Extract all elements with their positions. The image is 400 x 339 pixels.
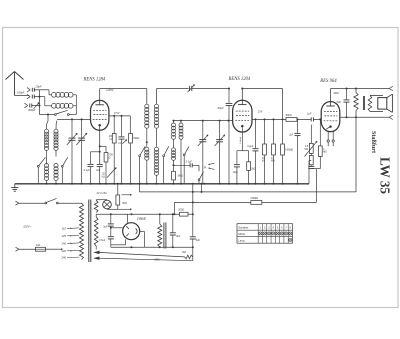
- label 265V: [153, 258, 160, 261]
- resistor 10k: [262, 119, 266, 183]
- svg-text:50Ω: 50Ω: [122, 202, 127, 205]
- svg-text:Schalter: Schalter: [238, 226, 248, 230]
- svg-text:50kΩ: 50kΩ: [286, 113, 292, 117]
- capacitor 100pF: [17, 90, 40, 98]
- bus junction dots: [46, 183, 299, 185]
- resistor 700: [99, 145, 114, 184]
- resistor cathode tube2: [247, 151, 256, 184]
- wire ground return right: [309, 161, 311, 184]
- svg-text:0.05MΩ: 0.05MΩ: [285, 150, 293, 152]
- label +100V: [106, 88, 114, 92]
- ground bus: [15, 183, 309, 185]
- wire rect top: [96, 213, 179, 215]
- label 220V: [22, 225, 31, 229]
- variable capacitor osc gang: [198, 121, 208, 184]
- resistor 0.1M grid: [309, 153, 313, 166]
- svg-text:kΩ: kΩ: [262, 161, 265, 163]
- wire lamp return: [107, 209, 132, 210]
- coil wave trap: [145, 147, 149, 184]
- label tube U1: [83, 78, 106, 83]
- transformer primary: [80, 203, 84, 259]
- resistor 200ohm: [178, 209, 194, 217]
- wire anode rail tube1: [100, 89, 147, 104]
- coil antenna primary: [49, 90, 76, 97]
- svg-text:125: 125: [62, 234, 67, 238]
- svg-text:Lang: Lang: [238, 239, 245, 243]
- svg-text:0.2µF: 0.2µF: [247, 146, 254, 148]
- svg-text:2µF: 2µF: [103, 227, 108, 229]
- svg-text:MΩ: MΩ: [305, 149, 309, 151]
- resistor 5M: [172, 160, 183, 183]
- svg-text:50kΩ: 50kΩ: [133, 137, 139, 140]
- label tap 110: [62, 226, 79, 230]
- capacitor 20pF: [27, 85, 49, 92]
- coil osc 2: [179, 121, 183, 184]
- capacitor AF 2uF: [289, 118, 300, 183]
- resistor 0.1M: [271, 119, 275, 183]
- coil loading 2: [54, 164, 58, 184]
- svg-text:4V 0.15A: 4V 0.15A: [96, 192, 107, 195]
- wire coil returns: [75, 95, 77, 115]
- svg-text:Mittel: Mittel: [238, 232, 245, 236]
- transformer heater leads: [93, 246, 99, 260]
- label tap 125: [62, 234, 80, 238]
- op tube U3 RES964: [321, 102, 340, 132]
- wire heater 1: [99, 252, 185, 257]
- switch osc: [183, 147, 189, 184]
- svg-text:MΩ: MΩ: [271, 161, 275, 163]
- capacitor 1uF coupling: [307, 112, 322, 122]
- switch IF 1: [139, 146, 146, 185]
- svg-text:1064: 1064: [137, 216, 147, 221]
- label 1064: [137, 216, 147, 221]
- wire osc top: [173, 120, 234, 122]
- capacitor cathode 1: [84, 151, 101, 184]
- svg-text:0.5µF: 0.5µF: [99, 240, 106, 242]
- resistor 50k anode: [286, 113, 312, 121]
- svg-text:0.4mA: 0.4mA: [239, 137, 242, 144]
- coil osc 3: [172, 148, 176, 161]
- resistor field: [354, 89, 358, 192]
- svg-text:110: 110: [62, 226, 67, 230]
- svg-text:kΩ: kΩ: [110, 138, 113, 141]
- coil osc 1: [172, 121, 176, 148]
- capacitor 0.2uF: [247, 119, 258, 183]
- op tube U2 RENS1204: [233, 100, 252, 132]
- wire riser 8uF: [192, 184, 194, 214]
- capacitor TA coupling: [173, 161, 200, 167]
- svg-text:0.5V: 0.5V: [114, 111, 120, 115]
- transformer heater winding: [94, 200, 107, 213]
- svg-text:Staßfurt: Staßfurt: [370, 131, 376, 153]
- speaker: [378, 94, 393, 112]
- terminal mains 1: [16, 201, 46, 205]
- wire anode tube2: [241, 88, 243, 101]
- svg-text:300pF: 300pF: [28, 108, 36, 112]
- svg-text:LW 35: LW 35: [378, 157, 393, 194]
- svg-text:7kΩ: 7kΩ: [182, 251, 187, 254]
- wire heater 2: [99, 247, 193, 260]
- svg-text:0.1µF: 0.1µF: [84, 170, 91, 172]
- terminal mains 2: [16, 247, 36, 251]
- variable capacitor osc trimmer: [215, 121, 225, 184]
- svg-text:5MΩ: 5MΩ: [178, 174, 183, 177]
- resistor 1M: [317, 118, 328, 168]
- coil oscillator feedback: [154, 147, 158, 184]
- resistor 200k: [251, 196, 262, 204]
- wire anode tube3: [330, 89, 332, 102]
- label Stassfurt: [370, 131, 376, 153]
- table wave switch: [237, 224, 293, 244]
- label tap 240: [62, 256, 80, 260]
- capacitor buffer 1: [103, 214, 114, 236]
- switch IF 2: [163, 146, 169, 184]
- resistor 50k: [129, 116, 140, 184]
- svg-text:220: 220: [62, 249, 67, 253]
- wire output rail: [331, 86, 393, 90]
- wire HT detect line: [174, 201, 316, 214]
- label 300V: [333, 91, 339, 95]
- svg-text:8µF: 8µF: [196, 239, 201, 242]
- svg-text:10A: 10A: [36, 243, 41, 247]
- svg-text:240: 240: [62, 256, 67, 260]
- potentiometer volume: [305, 125, 318, 157]
- wire input junction: [39, 90, 55, 116]
- label tube U3: [319, 79, 337, 84]
- svg-text:2kΩ: 2kΩ: [251, 169, 255, 171]
- svg-text:200Ω: 200Ω: [178, 209, 184, 212]
- terminal TA: [203, 163, 214, 169]
- switch mains: [45, 198, 82, 204]
- svg-text:2µF: 2µF: [96, 170, 101, 172]
- switch TA: [198, 165, 203, 184]
- svg-text:kΩ: kΩ: [102, 175, 105, 178]
- capacitor 300pF: [25, 103, 40, 113]
- coil IF secondary: [154, 89, 188, 148]
- svg-text:100pF: 100pF: [17, 90, 25, 94]
- svg-text:300v: 300v: [333, 91, 339, 95]
- svg-text:RENS 1284: RENS 1284: [83, 78, 106, 83]
- label tap 220: [62, 249, 80, 253]
- wire output bottom: [340, 115, 393, 119]
- svg-text:TA: TA: [203, 165, 206, 169]
- trimmer padding: [188, 85, 230, 93]
- transformer HT winding: [94, 214, 98, 246]
- transformer output core: [363, 96, 365, 110]
- wire screen riser: [242, 89, 282, 120]
- svg-text:60µF: 60µF: [218, 106, 224, 110]
- variable capacitor gang 1: [67, 119, 77, 183]
- capacitor cathode tube2: [233, 151, 240, 184]
- grid wire AVC line: [57, 118, 91, 120]
- svg-text:220V~: 220V~: [22, 225, 31, 229]
- svg-text:200kΩ: 200kΩ: [251, 196, 259, 200]
- switch band 1: [37, 157, 46, 168]
- label 25V: [257, 110, 263, 114]
- wire feedback line: [139, 184, 356, 193]
- svg-text:2µF: 2µF: [289, 134, 294, 136]
- fuse 10A: [36, 243, 63, 251]
- svg-text:RES 964: RES 964: [319, 79, 337, 84]
- wire rect bottom: [111, 246, 194, 248]
- variable capacitor gang 2: [76, 119, 86, 183]
- label tube U2: [228, 77, 251, 82]
- coil tuning 2: [54, 121, 58, 157]
- pins tube3: [327, 131, 334, 146]
- label 0.4mA: [239, 137, 242, 144]
- svg-text:8µF: 8µF: [176, 235, 181, 238]
- wire plate load: [252, 118, 286, 120]
- lamp 4V: [96, 192, 111, 209]
- svg-text:20pF: 20pF: [35, 85, 42, 89]
- capacitor grid block: [308, 166, 316, 202]
- coil antenna secondary: [40, 97, 77, 109]
- capacitor buffer 2: [99, 237, 113, 248]
- transformer output primary: [368, 95, 383, 111]
- choke filter: [158, 214, 166, 248]
- svg-text:Ω: Ω: [109, 157, 111, 160]
- antenna: [6, 72, 24, 96]
- potentiometer 20k: [102, 168, 117, 179]
- ground symbol: [11, 184, 18, 191]
- label 0.5V: [114, 111, 120, 115]
- svg-text:+100V: +100V: [106, 88, 114, 92]
- coil tuning 1: [44, 115, 48, 157]
- transformer core: [89, 200, 91, 263]
- svg-text:0.1µF: 0.1µF: [186, 161, 193, 163]
- coil loading 1: [44, 164, 48, 184]
- wire antenna to input: [15, 95, 30, 97]
- capacitor 60pF grid: [218, 88, 233, 184]
- wire cathode tube2: [237, 128, 249, 151]
- wire lamp feed arrow: [122, 194, 132, 195]
- switch wave band top: [55, 110, 77, 115]
- capacitor 5uF: [336, 89, 349, 118]
- label LW35: [378, 157, 393, 194]
- svg-text:5µF: 5µF: [336, 100, 341, 104]
- label tap 140: [62, 241, 80, 245]
- capacitor 8uF 2: [190, 214, 201, 247]
- svg-text:10µF: 10µF: [233, 172, 239, 174]
- rectifier tube 1064: [110, 214, 145, 247]
- capacitor 8uF 1: [170, 214, 181, 247]
- capacitor screen bypass: [118, 116, 127, 184]
- resistor 100k: [109, 116, 116, 184]
- resistor 0.05M: [281, 119, 294, 183]
- svg-text:25V: 25V: [257, 110, 263, 114]
- switch band 2: [38, 157, 68, 184]
- wire bus stub: [201, 184, 203, 192]
- capacitor cathode 2: [96, 164, 103, 183]
- wire screen feed tube1: [109, 115, 130, 117]
- svg-text:MΩ: MΩ: [323, 152, 327, 154]
- resistor hum: [182, 251, 193, 259]
- svg-text:RENS 1204: RENS 1204: [228, 77, 251, 82]
- svg-text:1µF: 1µF: [307, 112, 312, 116]
- coil IF primary: [145, 104, 149, 147]
- resistor 50ohm: [116, 183, 127, 210]
- svg-text:140: 140: [62, 241, 67, 245]
- op tube U1 RENS1284: [91, 100, 109, 164]
